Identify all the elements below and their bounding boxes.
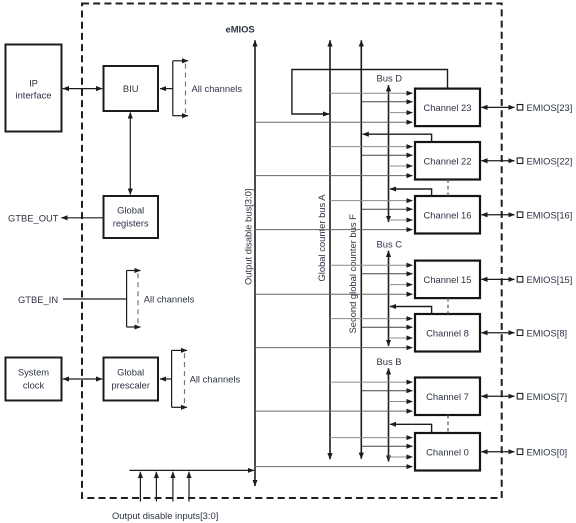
svg-text:Global: Global <box>117 205 144 216</box>
fanout bracket all-channels at BIU <box>173 61 188 116</box>
bus B vertical <box>388 368 390 461</box>
wire System clock to Global prescaler bidirectional <box>63 378 102 380</box>
wire input 2 to Channel 8 <box>361 326 412 328</box>
wire input 3 to Channel 22 <box>389 165 413 167</box>
wire input 1 to Channel 23 <box>330 92 413 94</box>
wire input 2 to Channel 7 <box>361 390 412 392</box>
svg-text:All channels: All channels <box>192 83 243 94</box>
svg-text:EMIOS[23]: EMIOS[23] <box>527 102 573 113</box>
svg-text:Channel 0: Channel 0 <box>426 446 469 457</box>
svg-text:clock: clock <box>23 380 45 391</box>
svg-text:EMIOS[16]: EMIOS[16] <box>527 209 573 220</box>
svg-text:System: System <box>18 367 49 378</box>
wire channel 0 drives bus B <box>390 424 432 432</box>
channel block Channel 8 <box>415 314 480 352</box>
svg-text:All channels: All channels <box>190 374 241 385</box>
svg-text:Bus B: Bus B <box>377 356 402 367</box>
dashed continuation between Channel 15 and Channel 8 <box>447 298 449 314</box>
dashed continuation between Channel 7 and Channel 0 <box>447 415 449 433</box>
bus Global counter bus A vertical <box>329 40 331 459</box>
wire input 2 to Channel 22 <box>361 154 412 156</box>
svg-text:Output disable bus[3:0]: Output disable bus[3:0] <box>243 189 254 285</box>
wire channel 16 drives bus D <box>390 189 432 196</box>
wire fanout to Global prescaler <box>160 378 172 380</box>
wire channel 8 drives bus C <box>390 307 432 314</box>
wire input 1 to Channel 0 <box>330 437 413 439</box>
wire Channel 15 to pin EMIOS[15] bidirectional <box>481 278 514 280</box>
svg-text:Bus C: Bus C <box>377 239 403 250</box>
wire BIU to Global registers bidirectional <box>129 112 131 194</box>
wire input 4 to Channel 0 <box>255 466 413 468</box>
wire Channel 0 to pin EMIOS[0] bidirectional <box>481 451 514 453</box>
dashed continuation between Channel 22 and Channel 16 <box>447 180 449 197</box>
svg-text:All channels: All channels <box>144 294 195 305</box>
pin square EMIOS[7] <box>517 393 523 399</box>
wire input 2 to Channel 0 <box>361 445 412 447</box>
wire Channel 23 to pin EMIOS[23] bidirectional <box>481 106 514 108</box>
pin square EMIOS[16] <box>517 212 523 218</box>
svg-text:interface: interface <box>16 90 52 101</box>
block System clock <box>6 358 62 401</box>
fanout bracket all-channels at GTBE_IN <box>127 271 141 328</box>
wire input 4 to Channel 8 <box>255 347 413 349</box>
wire output disable input 0 <box>188 472 190 502</box>
svg-text:Second global counter bus F: Second global counter bus F <box>347 214 358 334</box>
wire input 4 to Channel 15 <box>255 293 413 295</box>
pin square EMIOS[0] <box>517 449 523 455</box>
svg-text:Global counter bus A: Global counter bus A <box>316 194 327 282</box>
bus Second global counter bus F vertical <box>360 40 362 459</box>
wire input 2 to Channel 23 <box>361 101 412 103</box>
bus C vertical <box>388 251 390 346</box>
wire Channel 8 to pin EMIOS[8] bidirectional <box>481 332 514 334</box>
block Global prescaler <box>104 358 159 401</box>
block BIU <box>104 66 159 111</box>
svg-text:prescaler: prescaler <box>111 380 150 391</box>
svg-text:Channel 23: Channel 23 <box>424 102 472 113</box>
wire output disable input 2 <box>155 472 157 502</box>
wire IP interface to BIU bidirectional <box>63 88 102 90</box>
wire input 1 to Channel 8 <box>330 318 413 320</box>
wire channel 23 drives bus A loop <box>292 70 448 115</box>
block Global registers <box>104 196 159 238</box>
wire input 3 to Channel 7 <box>389 401 413 403</box>
wire Channel 16 to pin EMIOS[16] bidirectional <box>481 214 514 216</box>
wire input 2 to Channel 15 <box>361 273 412 275</box>
svg-text:IP: IP <box>29 78 38 89</box>
fanout bracket all-channels at Global prescaler <box>172 350 187 407</box>
wire Channel 7 to pin EMIOS[7] bidirectional <box>481 395 514 397</box>
wire input 4 to Channel 23 <box>255 121 413 123</box>
channel block Channel 15 <box>415 261 480 299</box>
wire GTBE_OUT from Global registers <box>61 217 103 219</box>
wire input 1 to Channel 22 <box>330 146 413 148</box>
svg-text:EMIOS[22]: EMIOS[22] <box>527 155 573 166</box>
channel block Channel 23 <box>415 89 480 127</box>
svg-text:Channel 7: Channel 7 <box>426 391 469 402</box>
channel block Channel 0 <box>415 433 480 471</box>
svg-text:GTBE_OUT: GTBE_OUT <box>8 213 59 224</box>
wire input 3 to Channel 23 <box>389 112 413 114</box>
wire input 3 to Channel 8 <box>389 337 413 339</box>
svg-text:Channel 15: Channel 15 <box>424 274 472 285</box>
svg-text:eMIOS: eMIOS <box>226 24 255 35</box>
wire output disable input 3 <box>139 472 141 502</box>
svg-text:EMIOS[7]: EMIOS[7] <box>527 391 568 402</box>
svg-text:registers: registers <box>113 218 149 229</box>
svg-text:Channel 16: Channel 16 <box>424 209 472 220</box>
wire channel 22 drives bus F <box>363 134 432 141</box>
channel block Channel 7 <box>415 378 480 416</box>
channel block Channel 22 <box>415 142 480 180</box>
pin square EMIOS[22] <box>517 158 523 164</box>
block IP interface <box>6 45 62 132</box>
svg-text:EMIOS[0]: EMIOS[0] <box>527 446 568 457</box>
svg-text:GTBE_IN: GTBE_IN <box>18 294 58 305</box>
svg-text:EMIOS[15]: EMIOS[15] <box>527 274 573 285</box>
wire input 3 to Channel 0 <box>389 456 413 458</box>
wire input 4 to Channel 22 <box>255 175 413 177</box>
svg-text:BIU: BIU <box>123 83 139 94</box>
svg-text:EMIOS[8]: EMIOS[8] <box>527 327 568 338</box>
wire output disable input 1 <box>172 472 174 502</box>
pin square EMIOS[15] <box>517 277 523 283</box>
bus D vertical <box>388 85 390 222</box>
eMIOS module dashed boundary <box>82 4 502 499</box>
wire input 3 to Channel 15 <box>389 284 413 286</box>
wire Channel 22 to pin EMIOS[22] bidirectional <box>481 160 514 162</box>
wire input 1 to Channel 16 <box>330 200 413 202</box>
svg-text:Channel 22: Channel 22 <box>424 155 472 166</box>
wire GTBE_IN to fanout <box>63 298 127 300</box>
bus Output disable bus[3:0] vertical <box>254 40 256 486</box>
wire fanout to BIU <box>160 88 173 90</box>
pin square EMIOS[23] <box>517 105 523 111</box>
wire input 2 to Channel 16 <box>361 208 412 210</box>
wire input 1 to Channel 15 <box>330 264 413 266</box>
svg-text:Output disable inputs[3:0]: Output disable inputs[3:0] <box>112 510 218 521</box>
pin square EMIOS[8] <box>517 330 523 336</box>
wire input 3 to Channel 16 <box>389 219 413 221</box>
wire input 4 to Channel 7 <box>255 410 413 412</box>
svg-text:Global: Global <box>117 367 144 378</box>
channel block Channel 16 <box>415 196 480 234</box>
svg-text:Bus D: Bus D <box>377 73 403 84</box>
wire input 1 to Channel 7 <box>330 381 413 383</box>
wire input 4 to Channel 16 <box>255 229 413 231</box>
bottom collector wire for output disable inputs <box>130 469 255 471</box>
svg-text:Channel 8: Channel 8 <box>426 327 469 338</box>
